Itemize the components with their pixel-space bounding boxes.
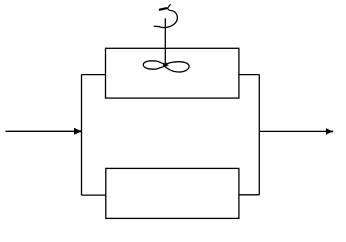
vessel U1 (stirred tank, top rectangle) — [106, 48, 239, 98]
impeller right blade — [164, 62, 190, 72]
vessel U2 (bottom rectangle) — [106, 168, 239, 218]
rotation arrowhead — [159, 8, 170, 10]
stirrer shaft — [164, 18, 166, 64]
wire right-branch-top (upper horizontal connector, right) — [239, 74, 259, 76]
outlet arrowhead — [326, 128, 333, 135]
wire right-branch-bottom (lower horizontal connector, right) — [239, 194, 259, 196]
wire left-branch-top (upper horizontal connector, left) — [82, 74, 106, 76]
inlet arrowhead — [74, 128, 82, 135]
wire inlet-line — [6, 130, 75, 132]
wire left-branch-bottom (lower horizontal connector, left) — [82, 194, 106, 196]
wire right-branch-vertical — [258, 75, 260, 195]
impeller left blade — [143, 61, 167, 69]
wire left-branch-vertical — [81, 75, 83, 196]
rotation arrow arc — [154, 10, 178, 27]
wire outlet-line — [259, 130, 326, 132]
